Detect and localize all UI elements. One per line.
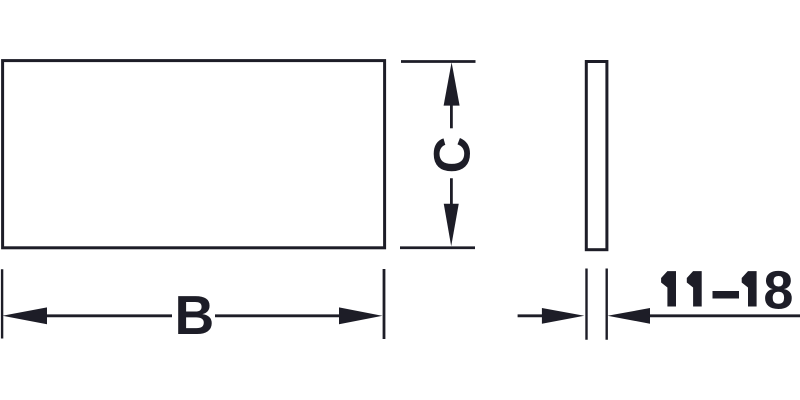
extension line bottom-right (for C, lower) (400, 246, 475, 249)
label thickness dash (713, 291, 740, 299)
dimension line C upper segment (450, 104, 453, 128)
extension line bottom-right (for B, right) (383, 269, 386, 339)
extension line below side view left (585, 269, 587, 340)
arrowhead C up (444, 62, 460, 105)
panel side view (thickness profile) (586, 62, 607, 250)
arrowhead thickness pointing right (542, 308, 584, 324)
label thickness digit 1 (second) (687, 271, 702, 306)
dimension line B right segment (215, 314, 340, 317)
panel front view (rectangle B x C) (3, 61, 385, 248)
extension line bottom-left (for B, left) (1, 269, 3, 338)
svg-text:C: C (424, 137, 481, 174)
dimension line thickness left segment (518, 314, 543, 317)
arrowhead B right (339, 307, 383, 324)
svg-text:8: 8 (763, 261, 793, 321)
dimension line thickness right segment (649, 314, 800, 317)
arrowhead thickness pointing left (608, 308, 651, 324)
extension line below side view right (606, 269, 608, 340)
extension line top-right (for C, upper) (401, 60, 476, 63)
dimension line C lower segment (450, 178, 453, 205)
label thickness digit 1 (first) (661, 271, 676, 306)
dimension line B left segment (45, 314, 172, 317)
arrowhead C down (444, 204, 459, 247)
arrowhead B left (2, 307, 47, 324)
svg-text:B: B (175, 284, 215, 346)
label thickness digit 1 (third) (742, 271, 757, 306)
